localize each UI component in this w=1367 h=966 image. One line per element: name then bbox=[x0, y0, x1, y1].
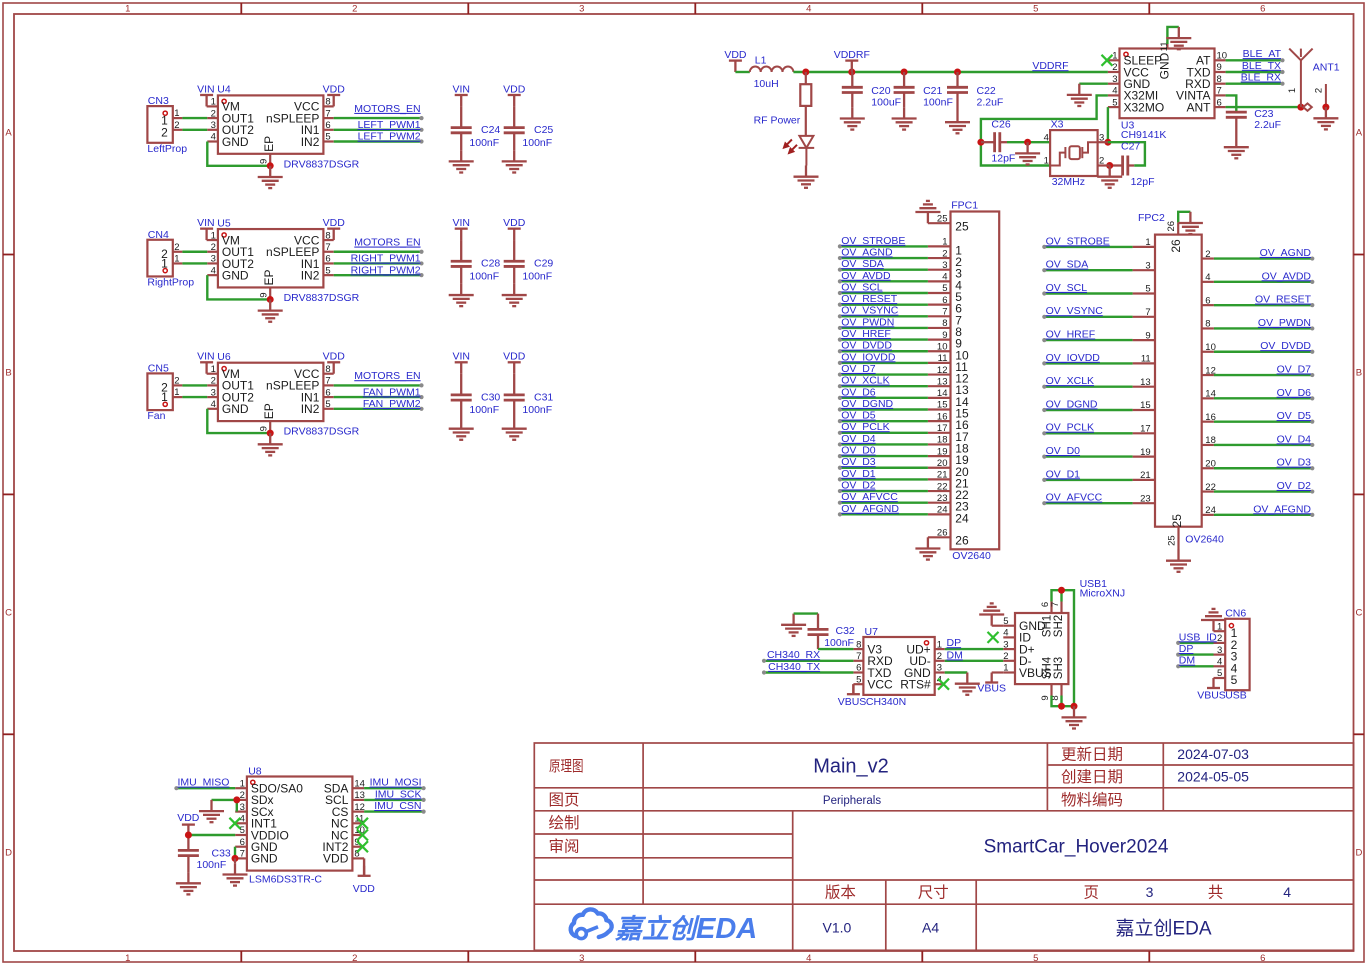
wire bbox=[840, 443, 928, 445]
svg-text:11: 11 bbox=[938, 353, 948, 364]
svg-text:DM: DM bbox=[947, 649, 963, 661]
svg-text:GND: GND bbox=[251, 852, 278, 866]
svg-text:C21: C21 bbox=[923, 85, 942, 97]
wire X32MI loop bbox=[981, 95, 1108, 165]
svg-text:CN4: CN4 bbox=[148, 229, 169, 241]
svg-text:14: 14 bbox=[937, 388, 948, 399]
svg-text:6: 6 bbox=[325, 254, 330, 265]
svg-text:25: 25 bbox=[1167, 535, 1178, 546]
svg-text:21: 21 bbox=[937, 470, 948, 481]
svg-text:21: 21 bbox=[1140, 470, 1151, 481]
wire bbox=[927, 536, 929, 538]
logo 嘉立创EDA bbox=[571, 909, 758, 945]
svg-text:5: 5 bbox=[240, 825, 245, 836]
svg-text:1: 1 bbox=[1145, 237, 1150, 248]
svg-text:C31: C31 bbox=[534, 391, 553, 403]
svg-text:3: 3 bbox=[240, 802, 245, 813]
power flag VIN bbox=[200, 95, 213, 106]
svg-text:OV_D0: OV_D0 bbox=[1046, 445, 1081, 457]
svg-text:OV_VSYNC: OV_VSYNC bbox=[841, 305, 899, 317]
power flag VIN bbox=[455, 95, 468, 106]
svg-text:OV_VSYNC: OV_VSYNC bbox=[1046, 305, 1104, 317]
wire bbox=[234, 858, 236, 863]
svg-text:OV_D7: OV_D7 bbox=[1277, 363, 1312, 375]
svg-text:U8: U8 bbox=[248, 766, 262, 778]
svg-text:OV_XCLK: OV_XCLK bbox=[841, 375, 889, 387]
svg-text:绘制: 绘制 bbox=[549, 814, 580, 832]
wire VDDRF rail bbox=[793, 71, 1108, 73]
svg-text:2: 2 bbox=[240, 790, 245, 801]
svg-text:1: 1 bbox=[1003, 663, 1008, 674]
svg-text:1: 1 bbox=[937, 639, 942, 650]
svg-text:SH4: SH4 bbox=[1042, 656, 1054, 679]
svg-text:U5: U5 bbox=[217, 217, 231, 229]
no-connect RTS# bbox=[938, 679, 949, 690]
svg-text:OV_DGND: OV_DGND bbox=[1046, 398, 1098, 410]
wire bbox=[212, 799, 237, 801]
svg-text:MicroXNJ: MicroXNJ bbox=[1080, 587, 1126, 599]
USB connector USB1 MicroXNJ bbox=[1003, 602, 1068, 701]
svg-text:26: 26 bbox=[1166, 221, 1177, 232]
motor driver U4 DRV8837DSGR bbox=[207, 95, 334, 165]
svg-text:8: 8 bbox=[856, 639, 861, 650]
svg-text:7: 7 bbox=[325, 108, 330, 119]
svg-text:4: 4 bbox=[211, 399, 216, 410]
title block table bbox=[534, 743, 1353, 950]
svg-text:100nF: 100nF bbox=[824, 637, 854, 649]
svg-text:RF Power: RF Power bbox=[754, 115, 801, 127]
svg-text:U4: U4 bbox=[217, 84, 231, 96]
svg-text:OV_DVDD: OV_DVDD bbox=[841, 340, 892, 352]
svg-text:6: 6 bbox=[942, 295, 947, 306]
capacitor C23 2.2uF bbox=[1226, 112, 1247, 136]
capacitor C33 100nF bbox=[178, 850, 199, 872]
svg-text:VDD: VDD bbox=[177, 812, 200, 824]
svg-text:1: 1 bbox=[1112, 51, 1117, 62]
wire bbox=[1214, 304, 1312, 306]
motor driver U5 DRV8837DSGR bbox=[207, 229, 334, 299]
wire bbox=[1214, 257, 1312, 259]
wire bbox=[1044, 316, 1132, 318]
wire bbox=[840, 455, 928, 457]
svg-text:6: 6 bbox=[325, 120, 330, 131]
junction bbox=[954, 69, 961, 76]
capacitor C22 2.2uF bbox=[947, 72, 968, 111]
power flag VDD bbox=[327, 362, 340, 373]
svg-text:23: 23 bbox=[1140, 493, 1151, 504]
svg-text:4: 4 bbox=[1003, 628, 1008, 639]
svg-text:7: 7 bbox=[942, 307, 947, 318]
svg-text:尺寸: 尺寸 bbox=[918, 884, 949, 902]
svg-text:2: 2 bbox=[1205, 249, 1210, 260]
wire DP bbox=[1178, 653, 1213, 655]
wire bbox=[1098, 141, 1108, 143]
wire bbox=[1044, 292, 1132, 294]
svg-text:10: 10 bbox=[937, 341, 948, 352]
wire bbox=[334, 396, 422, 398]
svg-text:1: 1 bbox=[211, 364, 216, 375]
svg-text:IMU_SCK: IMU_SCK bbox=[375, 788, 422, 800]
wire IMU_MISO bbox=[176, 787, 235, 789]
svg-text:VDDRF: VDDRF bbox=[1032, 60, 1068, 72]
svg-text:9: 9 bbox=[942, 330, 947, 341]
svg-text:5: 5 bbox=[325, 132, 330, 143]
svg-text:Fan: Fan bbox=[147, 410, 165, 422]
svg-text:DRV8837DSGR: DRV8837DSGR bbox=[284, 158, 360, 170]
junction bbox=[233, 796, 240, 803]
ground bbox=[794, 166, 819, 188]
wire bbox=[840, 397, 928, 399]
wire bbox=[334, 408, 422, 410]
svg-text:C33: C33 bbox=[212, 847, 231, 859]
svg-text:13: 13 bbox=[1140, 377, 1151, 388]
wire bbox=[1167, 27, 1178, 44]
svg-text:18: 18 bbox=[937, 435, 948, 446]
svg-text:LEFT_PWM1: LEFT_PWM1 bbox=[358, 119, 421, 131]
svg-text:3: 3 bbox=[1146, 884, 1154, 900]
svg-text:2: 2 bbox=[1217, 633, 1222, 644]
svg-text:6: 6 bbox=[240, 837, 245, 848]
svg-text:OV_PCLK: OV_PCLK bbox=[1046, 422, 1094, 434]
crystal X3 32MHz bbox=[1044, 130, 1105, 176]
svg-text:C20: C20 bbox=[871, 85, 890, 97]
power flag VIN bbox=[455, 229, 468, 240]
wire bbox=[182, 262, 207, 264]
ground bbox=[258, 433, 283, 455]
wire bbox=[840, 373, 928, 375]
svg-text:8: 8 bbox=[325, 230, 330, 241]
svg-text:7: 7 bbox=[1145, 307, 1150, 318]
junction bbox=[185, 832, 192, 839]
svg-text:SH2: SH2 bbox=[1053, 615, 1065, 637]
wire bbox=[1214, 397, 1312, 399]
wire bbox=[1226, 71, 1283, 73]
svg-text:IMU_CSN: IMU_CSN bbox=[374, 800, 421, 812]
svg-text:IN2: IN2 bbox=[301, 135, 320, 149]
svg-text:OV_DVDD: OV_DVDD bbox=[1260, 340, 1311, 352]
svg-text:6: 6 bbox=[1205, 295, 1210, 306]
junction bbox=[267, 430, 274, 437]
svg-text:4: 4 bbox=[942, 272, 947, 283]
svg-text:VBUS: VBUS bbox=[1197, 689, 1226, 701]
svg-text:OV_IOVDD: OV_IOVDD bbox=[1046, 352, 1101, 364]
svg-text:OV_D4: OV_D4 bbox=[1277, 433, 1312, 445]
svg-text:DRV8837DSGR: DRV8837DSGR bbox=[284, 426, 360, 438]
svg-text:100nF: 100nF bbox=[522, 404, 552, 416]
resistor (RF Power) bbox=[800, 84, 811, 106]
LED RF Power bbox=[799, 136, 815, 166]
wire bbox=[794, 612, 818, 614]
svg-text:CH340_RX: CH340_RX bbox=[767, 649, 820, 661]
svg-text:OV_D7: OV_D7 bbox=[841, 363, 876, 375]
power flag VDD bbox=[508, 95, 521, 106]
junction bbox=[1322, 104, 1329, 111]
junction bbox=[1058, 587, 1065, 594]
svg-text:OV_IOVDD: OV_IOVDD bbox=[841, 351, 896, 363]
svg-text:B: B bbox=[1356, 368, 1362, 379]
svg-text:VIN: VIN bbox=[452, 83, 470, 95]
svg-text:2: 2 bbox=[937, 651, 942, 662]
ground bbox=[1224, 136, 1249, 158]
wire bbox=[840, 245, 928, 247]
svg-text:4: 4 bbox=[1217, 657, 1222, 668]
svg-text:FPC2: FPC2 bbox=[1138, 212, 1165, 224]
ground bbox=[915, 537, 940, 559]
capacitor C21 100nF bbox=[894, 72, 915, 107]
svg-text:OV_D1: OV_D1 bbox=[841, 468, 876, 480]
capacitor C27 12pF bbox=[1110, 156, 1135, 176]
connector CN3 (LeftProp) bbox=[147, 106, 182, 143]
svg-text:4: 4 bbox=[806, 953, 811, 964]
svg-text:100nF: 100nF bbox=[469, 137, 499, 149]
svg-text:LEFT_PWM2: LEFT_PWM2 bbox=[358, 131, 421, 143]
svg-text:CH340_TX: CH340_TX bbox=[768, 661, 820, 673]
wire bbox=[1079, 82, 1108, 84]
svg-text:U7: U7 bbox=[865, 626, 879, 638]
wire DP bbox=[945, 648, 1004, 650]
svg-text:A4: A4 bbox=[922, 919, 939, 935]
svg-text:3: 3 bbox=[1217, 645, 1222, 656]
svg-text:OV_PCLK: OV_PCLK bbox=[841, 421, 889, 433]
svg-text:2: 2 bbox=[211, 108, 216, 119]
svg-text:SmartCar_Hover2024: SmartCar_Hover2024 bbox=[984, 836, 1169, 857]
ground bbox=[199, 800, 224, 822]
wire bbox=[840, 338, 928, 340]
svg-text:24: 24 bbox=[937, 505, 948, 516]
svg-text:FAN_PWM1: FAN_PWM1 bbox=[363, 386, 421, 398]
svg-text:C32: C32 bbox=[836, 625, 855, 637]
wire bbox=[182, 384, 207, 386]
wire bbox=[840, 257, 928, 259]
svg-text:12: 12 bbox=[354, 802, 365, 813]
svg-text:5: 5 bbox=[1231, 673, 1238, 687]
svg-text:15: 15 bbox=[937, 400, 948, 411]
svg-text:GND: GND bbox=[1158, 52, 1172, 79]
svg-text:VDD: VDD bbox=[323, 351, 346, 363]
svg-text:5: 5 bbox=[1112, 97, 1117, 108]
svg-text:4: 4 bbox=[1283, 884, 1291, 900]
wire bbox=[840, 280, 928, 282]
wire bbox=[182, 251, 207, 253]
power flag VDD bbox=[327, 229, 340, 240]
svg-text:C30: C30 bbox=[481, 391, 500, 403]
svg-text:C27: C27 bbox=[1121, 140, 1140, 152]
svg-text:5: 5 bbox=[1003, 616, 1008, 627]
svg-text:OV_SCL: OV_SCL bbox=[841, 281, 883, 293]
svg-text:3: 3 bbox=[937, 663, 942, 674]
svg-text:19: 19 bbox=[937, 446, 948, 457]
junction bbox=[1106, 162, 1113, 169]
svg-text:FAN_PWM2: FAN_PWM2 bbox=[363, 398, 421, 410]
svg-text:CN3: CN3 bbox=[148, 95, 169, 107]
svg-text:25: 25 bbox=[955, 220, 969, 234]
wire bbox=[840, 467, 928, 469]
svg-text:IN2: IN2 bbox=[301, 402, 320, 416]
power flag VDD bbox=[358, 866, 371, 876]
wire bbox=[182, 117, 207, 119]
svg-text:A: A bbox=[5, 128, 12, 139]
wire bbox=[805, 106, 807, 136]
junction bbox=[848, 69, 855, 76]
svg-text:EP: EP bbox=[262, 403, 276, 419]
wire bbox=[1098, 164, 1110, 166]
wire bbox=[840, 362, 928, 364]
svg-text:4: 4 bbox=[1044, 133, 1049, 144]
svg-text:17: 17 bbox=[937, 423, 948, 434]
wire bbox=[334, 117, 422, 119]
svg-text:OV_D5: OV_D5 bbox=[1277, 410, 1312, 422]
ground bbox=[781, 614, 806, 636]
svg-text:5: 5 bbox=[856, 674, 861, 685]
svg-text:13: 13 bbox=[354, 790, 365, 801]
wire bbox=[1044, 409, 1132, 411]
ground bbox=[258, 166, 283, 188]
svg-text:9: 9 bbox=[1217, 62, 1222, 73]
wire bbox=[840, 315, 928, 317]
svg-text:RTS#: RTS# bbox=[900, 678, 931, 692]
svg-text:SH1: SH1 bbox=[1042, 615, 1054, 637]
svg-text:14: 14 bbox=[354, 778, 365, 789]
svg-text:GND: GND bbox=[222, 268, 249, 282]
svg-text:6: 6 bbox=[325, 387, 330, 398]
svg-text:DP: DP bbox=[1179, 643, 1194, 655]
power flag VBUS bbox=[847, 684, 860, 694]
svg-text:X32MO: X32MO bbox=[1124, 100, 1165, 114]
junction bbox=[1297, 104, 1304, 111]
svg-text:2: 2 bbox=[1112, 62, 1117, 73]
svg-text:MOTORS_EN: MOTORS_EN bbox=[354, 237, 420, 249]
svg-text:FPC1: FPC1 bbox=[951, 200, 978, 212]
svg-text:OV_D2: OV_D2 bbox=[1277, 480, 1312, 492]
ground bbox=[449, 150, 474, 172]
junction bbox=[1058, 703, 1065, 710]
ground bbox=[1067, 84, 1092, 106]
svg-text:2: 2 bbox=[161, 125, 168, 139]
wire bbox=[182, 396, 207, 398]
power flag VIN bbox=[200, 229, 213, 240]
wire bbox=[1044, 269, 1132, 271]
svg-text:LeftProp: LeftProp bbox=[147, 143, 187, 155]
ground bbox=[1201, 609, 1226, 631]
power flag VDD bbox=[182, 825, 195, 851]
capacitor C29 100nF bbox=[504, 240, 525, 284]
svg-text:16: 16 bbox=[937, 411, 948, 422]
power flag VIN bbox=[455, 362, 468, 373]
wire bbox=[1060, 696, 1062, 707]
wire bbox=[840, 408, 928, 410]
svg-text:共: 共 bbox=[1208, 884, 1224, 902]
svg-text:VIN: VIN bbox=[452, 351, 470, 363]
wire bbox=[1226, 95, 1237, 112]
svg-text:DP: DP bbox=[947, 637, 962, 649]
wire bbox=[1044, 339, 1132, 341]
svg-text:100nF: 100nF bbox=[469, 404, 499, 416]
wire CH340_TX bbox=[764, 671, 853, 673]
svg-text:U6: U6 bbox=[217, 351, 231, 363]
wire bbox=[840, 269, 928, 271]
capacitor C20 100uF bbox=[842, 72, 863, 107]
wire bbox=[1214, 374, 1312, 376]
svg-text:5: 5 bbox=[1033, 4, 1038, 15]
svg-text:VIN: VIN bbox=[197, 83, 215, 95]
svg-text:4: 4 bbox=[1112, 86, 1117, 97]
svg-text:3: 3 bbox=[1145, 260, 1150, 271]
svg-text:3: 3 bbox=[579, 4, 584, 15]
svg-text:8: 8 bbox=[942, 318, 947, 329]
ground bbox=[449, 418, 474, 440]
svg-text:OV_STROBE: OV_STROBE bbox=[1046, 235, 1110, 247]
svg-text:11: 11 bbox=[1141, 354, 1151, 365]
wire bbox=[234, 847, 236, 859]
capacitor C31 100nF bbox=[504, 374, 525, 418]
svg-text:C29: C29 bbox=[534, 258, 553, 270]
svg-text:7: 7 bbox=[856, 651, 861, 662]
svg-text:4: 4 bbox=[806, 4, 811, 15]
svg-text:12pF: 12pF bbox=[1131, 176, 1155, 188]
ground bbox=[840, 107, 865, 129]
svg-text:2024-05-05: 2024-05-05 bbox=[1177, 768, 1249, 784]
svg-text:DM: DM bbox=[1179, 655, 1195, 667]
svg-text:OV_D6: OV_D6 bbox=[1277, 387, 1312, 399]
svg-text:7: 7 bbox=[1050, 602, 1061, 607]
wire bbox=[207, 275, 270, 299]
wire CH340_RX bbox=[764, 660, 853, 662]
svg-text:25: 25 bbox=[937, 213, 948, 224]
svg-text:OV_HREF: OV_HREF bbox=[841, 328, 891, 340]
svg-text:GND: GND bbox=[222, 135, 249, 149]
svg-text:OV_PWDN: OV_PWDN bbox=[1258, 317, 1311, 329]
power flag VBUS bbox=[985, 673, 998, 683]
svg-text:C25: C25 bbox=[534, 124, 553, 136]
svg-text:OV_SDA: OV_SDA bbox=[1046, 259, 1089, 271]
svg-text:OV_AGND: OV_AGND bbox=[1260, 247, 1312, 259]
svg-text:8: 8 bbox=[325, 97, 330, 108]
svg-text:MOTORS_EN: MOTORS_EN bbox=[354, 103, 420, 115]
svg-text:2.2uF: 2.2uF bbox=[1254, 119, 1281, 131]
svg-text:7: 7 bbox=[325, 242, 330, 253]
BLE module U3 CH9141K bbox=[1108, 41, 1227, 118]
svg-text:5: 5 bbox=[325, 265, 330, 276]
svg-text:USB: USB bbox=[1225, 689, 1247, 701]
ground bbox=[1178, 212, 1203, 234]
wire bbox=[1044, 479, 1132, 481]
svg-text:OV_D3: OV_D3 bbox=[841, 456, 876, 468]
svg-text:CH9141K: CH9141K bbox=[1121, 129, 1167, 141]
inductor L1 10uH bbox=[750, 67, 794, 72]
ground bbox=[258, 299, 283, 321]
wire bbox=[840, 420, 928, 422]
svg-text:2: 2 bbox=[211, 376, 216, 387]
svg-text:OV_HREF: OV_HREF bbox=[1046, 329, 1096, 341]
svg-text:15: 15 bbox=[1140, 400, 1151, 411]
capacitor C28 100nF bbox=[451, 240, 472, 284]
capacitor C32 100nF bbox=[808, 614, 829, 650]
wire bbox=[1044, 455, 1132, 457]
power flag VDD bbox=[508, 229, 521, 240]
svg-text:4: 4 bbox=[211, 132, 216, 143]
wire bbox=[1214, 514, 1312, 516]
svg-text:C: C bbox=[1355, 608, 1362, 619]
svg-text:图页: 图页 bbox=[549, 792, 580, 809]
svg-text:OV_AFVCC: OV_AFVCC bbox=[1046, 492, 1103, 504]
junction bbox=[1024, 139, 1031, 146]
svg-text:OV_RESET: OV_RESET bbox=[1255, 294, 1312, 306]
svg-text:OV_D2: OV_D2 bbox=[841, 479, 876, 491]
ground bbox=[176, 872, 201, 894]
wire bbox=[334, 274, 422, 276]
svg-text:A: A bbox=[1356, 128, 1363, 139]
svg-text:2: 2 bbox=[211, 242, 216, 253]
